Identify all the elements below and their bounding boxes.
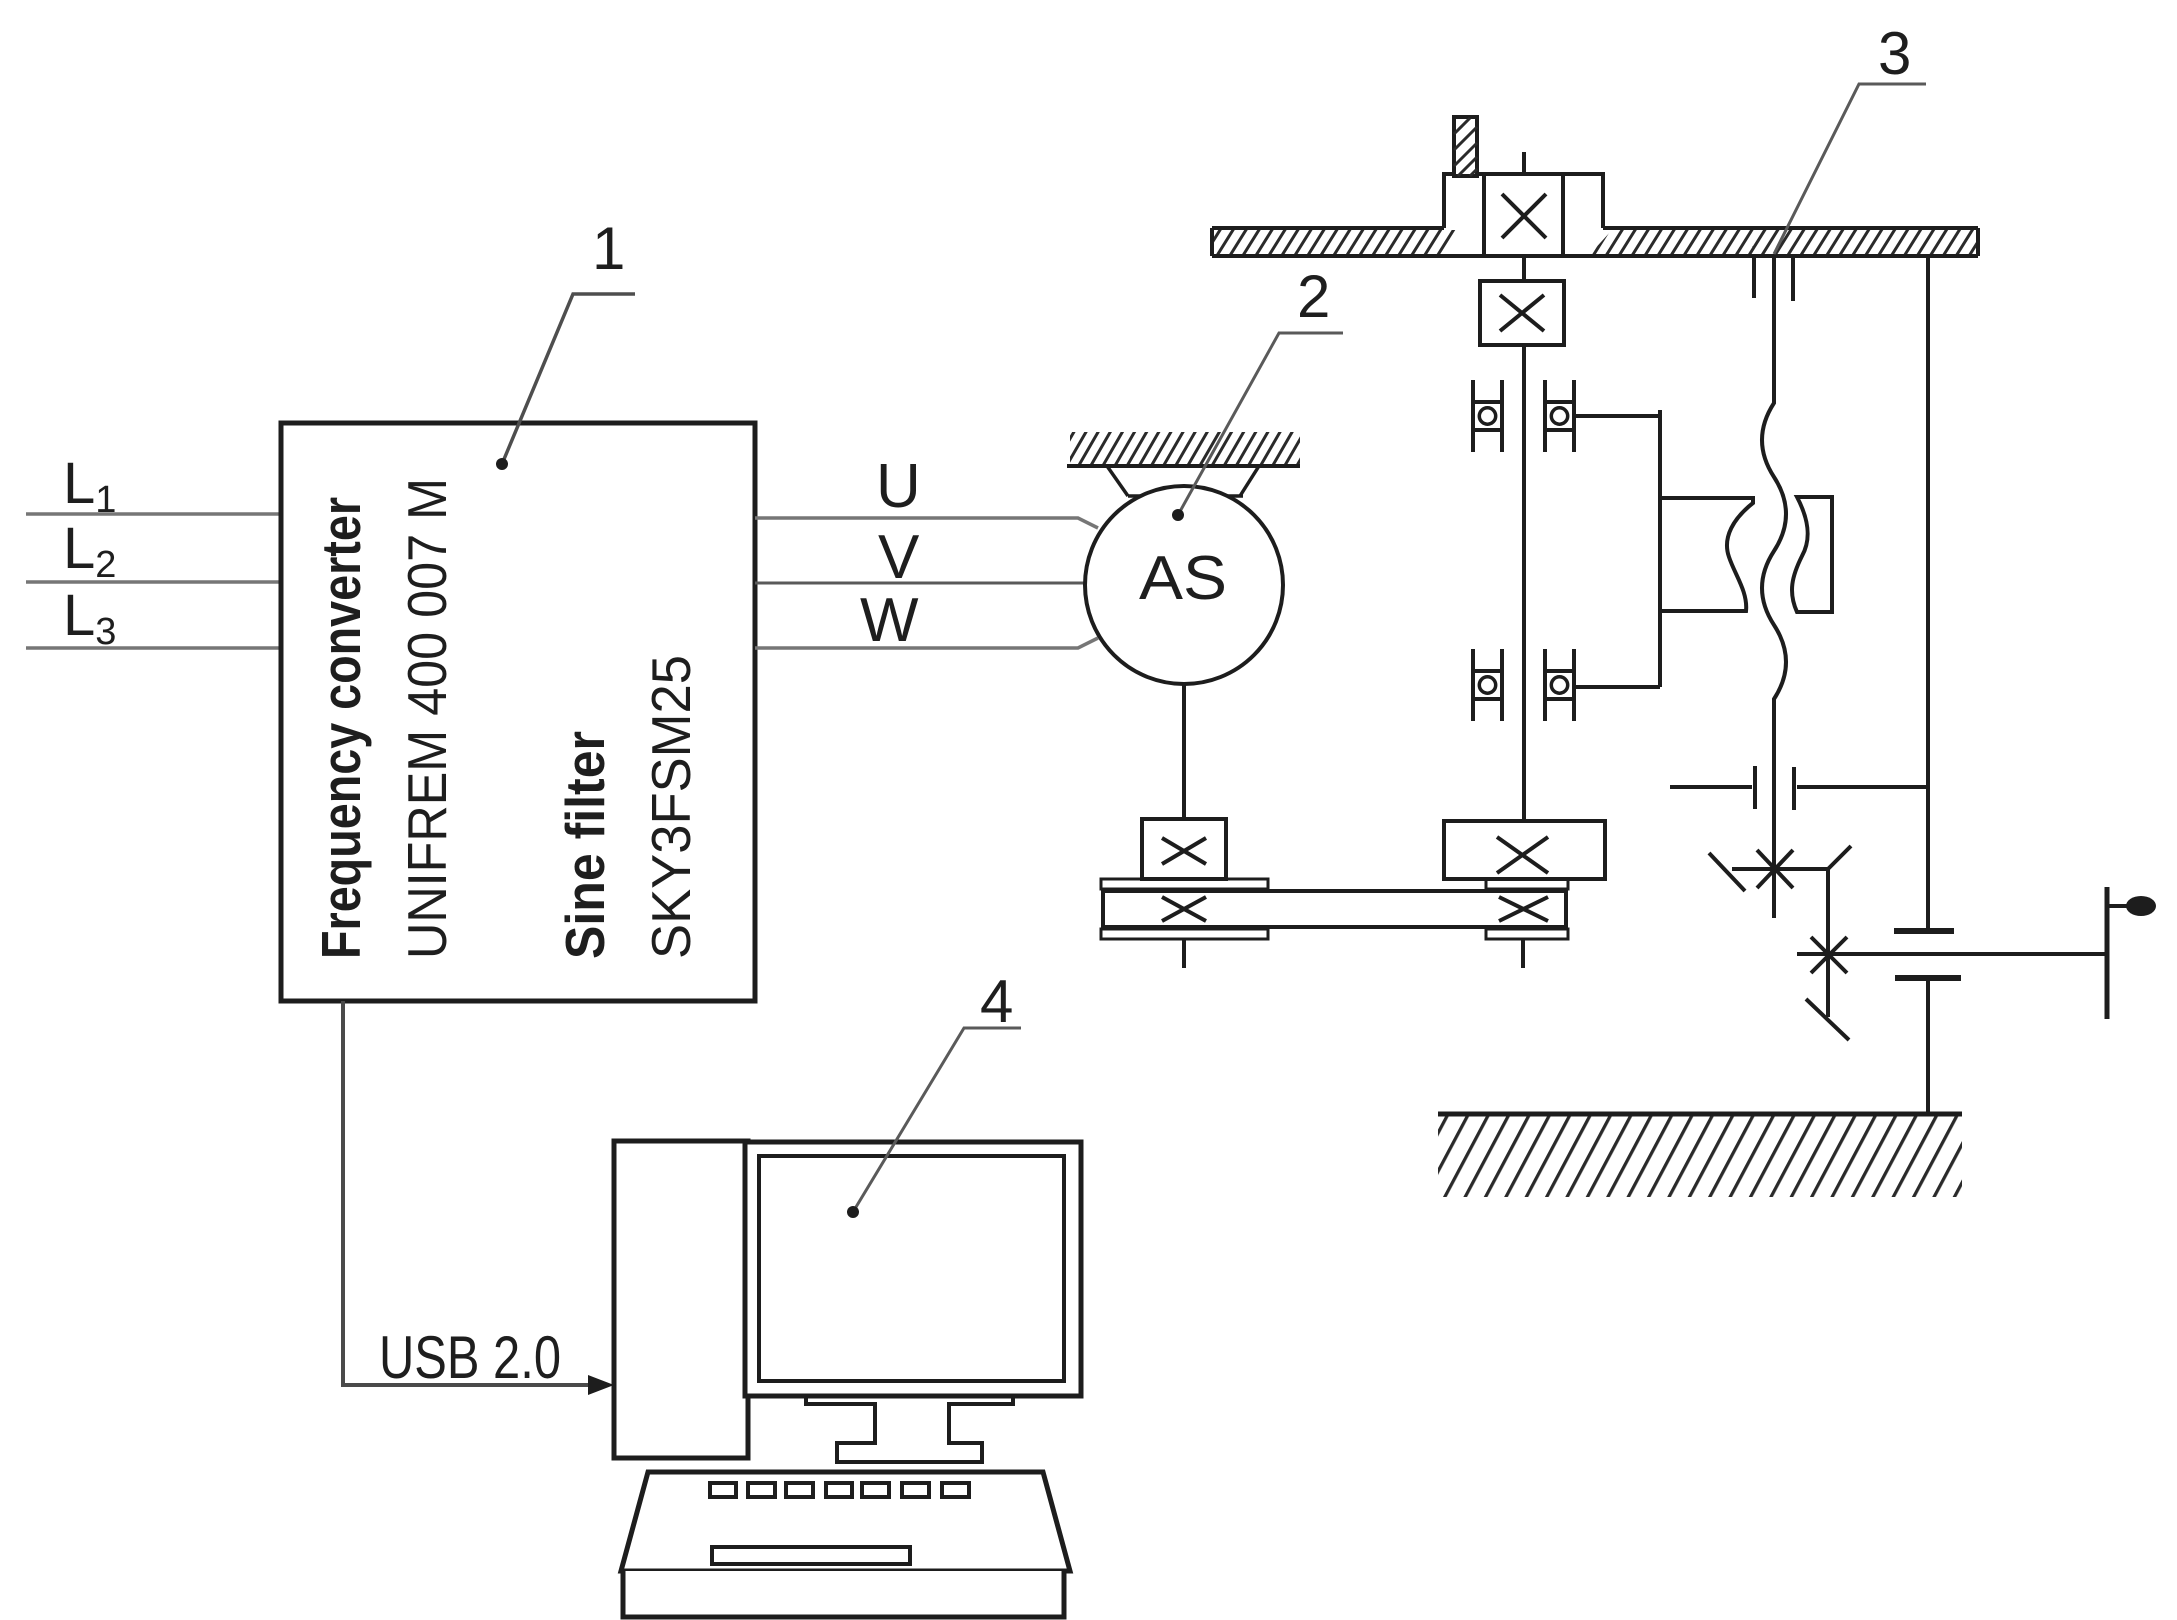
svg-text:2: 2 bbox=[1297, 263, 1330, 330]
svg-text:3: 3 bbox=[1878, 20, 1911, 87]
coupling box left bbox=[1142, 819, 1226, 879]
wire L3 bbox=[26, 646, 281, 650]
motor shaft bbox=[1182, 684, 1186, 819]
wire W bbox=[755, 638, 1098, 648]
wire L2 bbox=[26, 580, 281, 584]
gear block with broken-out section bbox=[1660, 498, 1753, 611]
svg-text:UNIFREM 400 007 M: UNIFREM 400 007 M bbox=[396, 478, 458, 959]
svg-text:V: V bbox=[878, 523, 920, 592]
bar plates bbox=[1101, 879, 1268, 889]
svg-text:U: U bbox=[876, 452, 921, 521]
upper clutch line bbox=[1670, 785, 1752, 789]
keys bbox=[710, 1483, 969, 1497]
motor ceiling line bbox=[1067, 464, 1300, 468]
svg-text:AS: AS bbox=[1139, 544, 1227, 613]
wire U bbox=[755, 518, 1098, 528]
slip joint ticks at platform bbox=[1752, 258, 1756, 298]
frequency converter box 1 bbox=[281, 423, 755, 1001]
svg-text:4: 4 bbox=[980, 968, 1013, 1035]
flexible shaft wavy line bbox=[1762, 256, 1786, 918]
small bearing box under platform bbox=[1522, 256, 1526, 281]
lower right bearing bbox=[1543, 649, 1547, 721]
leader 3 bbox=[1774, 84, 1926, 254]
right frame line bbox=[1926, 256, 1930, 928]
upper right bearing bbox=[1543, 380, 1547, 452]
lower left bearing bbox=[1471, 649, 1475, 721]
wire L1 bbox=[26, 512, 281, 516]
monitor bbox=[745, 1142, 1081, 1396]
leader 4 bbox=[853, 1028, 1021, 1212]
motor AS circle bbox=[1085, 486, 1283, 684]
svg-text:Frequency converter: Frequency converter bbox=[310, 497, 372, 959]
bearing connectors to gear block bbox=[1574, 414, 1660, 418]
bevel gear mesh 2 bbox=[1797, 869, 2107, 1040]
svg-text:1: 1 bbox=[592, 215, 625, 282]
USB wire bbox=[343, 1001, 590, 1385]
bevel gear mesh 1 bbox=[1709, 846, 1851, 891]
hatched peg bbox=[1454, 117, 1477, 176]
lower shaft bar bbox=[1103, 891, 1566, 927]
top platform hatched bar bbox=[1212, 230, 1462, 254]
bearing housing on platform bbox=[1444, 174, 1603, 228]
motor mount legs bbox=[1107, 466, 1128, 496]
monitor stand bbox=[806, 1396, 1013, 1462]
space bar bbox=[712, 1547, 910, 1564]
coupling box right bbox=[1444, 821, 1605, 879]
friction clutch plates bbox=[1894, 928, 1954, 934]
mating piece bbox=[1792, 497, 1832, 612]
svg-text:USB 2.0: USB 2.0 bbox=[379, 1324, 561, 1391]
computer tower bbox=[614, 1141, 748, 1458]
leader 1 bbox=[502, 294, 635, 464]
svg-text:W: W bbox=[860, 586, 919, 655]
vertical shaft bbox=[1522, 345, 1526, 821]
motor ceiling hatch bbox=[1070, 432, 1300, 465]
svg-text:SKY3FSM25: SKY3FSM25 bbox=[640, 655, 702, 959]
upper left bearing bbox=[1471, 380, 1475, 452]
svg-text:Sine filter: Sine filter bbox=[554, 731, 616, 959]
bearings bbox=[1473, 380, 1574, 721]
ground hatch bbox=[1438, 1114, 1962, 1197]
stub above housing bbox=[1522, 152, 1526, 174]
output shaft end bbox=[2105, 887, 2110, 1019]
wire V bbox=[755, 582, 1090, 585]
bar stubs bbox=[1182, 939, 1186, 968]
keyboard bbox=[621, 1472, 1070, 1571]
leader 2 bbox=[1178, 333, 1343, 515]
